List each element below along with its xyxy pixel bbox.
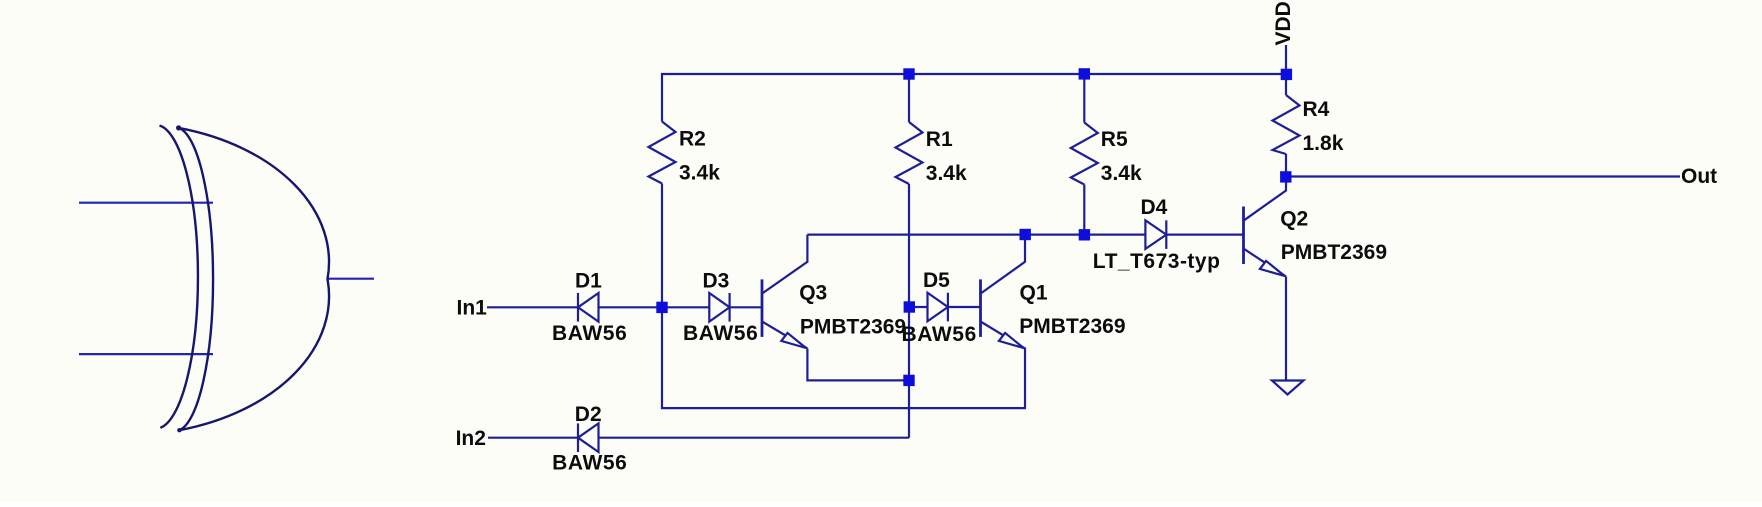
svg-text:VDD: VDD bbox=[1272, 1, 1295, 45]
wire R4 bottom lead bbox=[1285, 154, 1287, 177]
diode D1 bbox=[578, 293, 599, 322]
ground bbox=[1272, 381, 1304, 395]
node junction squares bbox=[656, 68, 1292, 386]
transistor Q2 bbox=[1244, 182, 1287, 380]
svg-text:In1: In1 bbox=[457, 296, 488, 319]
resistor R5 bbox=[1071, 123, 1098, 185]
diode D2 bbox=[578, 423, 599, 452]
svg-text:D4: D4 bbox=[1141, 196, 1168, 219]
wire top rail VDD bbox=[661, 73, 1286, 75]
wire R1 top lead bbox=[908, 74, 910, 122]
resistor R1 bbox=[896, 122, 923, 184]
transistor Q1 bbox=[981, 235, 1026, 349]
svg-text:3.4k: 3.4k bbox=[679, 162, 720, 185]
wire collector rail bbox=[807, 234, 1145, 236]
svg-text:D1: D1 bbox=[575, 270, 602, 293]
svg-text:3.4k: 3.4k bbox=[1101, 162, 1142, 185]
XOR gate input wire 2 bbox=[79, 353, 213, 355]
XOR gate top anchor dot bbox=[176, 125, 181, 130]
wire R5 top lead bbox=[1083, 74, 1085, 123]
node rail-R1 bbox=[903, 68, 914, 79]
wire D4 to Q2 base bbox=[1166, 234, 1243, 236]
wire In2 stub bbox=[488, 437, 578, 439]
node Q1 collector bbox=[1020, 229, 1031, 240]
svg-text:BAW56: BAW56 bbox=[902, 323, 977, 346]
transistor Q3 bbox=[762, 235, 909, 381]
svg-text:Q2: Q2 bbox=[1280, 208, 1308, 231]
svg-text:PMBT2369: PMBT2369 bbox=[1019, 315, 1125, 338]
wire R2 top lead bbox=[661, 73, 663, 122]
wire R4 top lead bbox=[1285, 74, 1287, 95]
diode D4 bbox=[1145, 220, 1166, 249]
wire junction to D5 bbox=[909, 306, 928, 308]
svg-text:BAW56: BAW56 bbox=[552, 452, 627, 475]
wire D5 to Q1 base bbox=[948, 306, 981, 308]
wire Out bbox=[1286, 175, 1680, 177]
node R1-D5 bbox=[904, 301, 915, 312]
diode D5 bbox=[928, 293, 948, 322]
svg-text:Out: Out bbox=[1681, 165, 1717, 188]
wire R1 bottom to In2 corner bbox=[908, 184, 910, 438]
node R5 bottom bbox=[1079, 229, 1090, 240]
wire node In1-junction down bbox=[662, 307, 1025, 408]
wire R5 bottom lead bbox=[1083, 185, 1085, 235]
svg-text:BAW56: BAW56 bbox=[552, 322, 627, 345]
resistor R2 bbox=[649, 122, 676, 184]
svg-text:D3: D3 bbox=[703, 270, 730, 293]
wire R2 bottom lead bbox=[661, 184, 663, 308]
XOR gate input wire 1 bbox=[79, 202, 213, 204]
resistor R4 bbox=[1273, 95, 1300, 154]
svg-text:LT_T673-typ: LT_T673-typ bbox=[1093, 250, 1221, 273]
svg-text:Q1: Q1 bbox=[1020, 281, 1048, 304]
wire In1 stub bbox=[487, 306, 578, 308]
XOR gate inner input arc bbox=[179, 128, 213, 430]
svg-text:PMBT2369: PMBT2369 bbox=[1281, 241, 1387, 264]
svg-text:R2: R2 bbox=[679, 128, 706, 151]
svg-text:In2: In2 bbox=[456, 427, 486, 450]
wire D3 to Q3 base bbox=[730, 306, 762, 308]
XOR gate bottom anchor dot bbox=[177, 428, 181, 432]
diode D3 bbox=[709, 293, 729, 322]
svg-text:R1: R1 bbox=[926, 128, 953, 151]
svg-text:PMBT2369: PMBT2369 bbox=[800, 315, 906, 338]
wire VDD lead bbox=[1285, 45, 1287, 74]
node R4-Out bbox=[1280, 171, 1291, 182]
svg-text:D5: D5 bbox=[923, 269, 950, 292]
wire In2 row right of D2 bbox=[599, 437, 909, 439]
svg-text:D2: D2 bbox=[575, 403, 602, 426]
svg-text:R4: R4 bbox=[1303, 98, 1330, 121]
svg-text:R5: R5 bbox=[1101, 128, 1128, 151]
XOR gate outer input arc bbox=[160, 126, 198, 428]
svg-text:1.8k: 1.8k bbox=[1303, 132, 1344, 155]
node In1-R2 bbox=[656, 302, 667, 313]
node rail-R5 bbox=[1079, 68, 1090, 79]
wire D1 to D3 bbox=[599, 306, 710, 308]
node Q3 emitter bbox=[903, 375, 914, 386]
node rail-VDD-R4 bbox=[1281, 69, 1292, 80]
svg-text:BAW56: BAW56 bbox=[683, 322, 758, 345]
XOR gate output wire bbox=[327, 278, 374, 280]
XOR gate body arc bbox=[179, 128, 329, 430]
svg-text:3.4k: 3.4k bbox=[926, 162, 967, 185]
svg-text:Q3: Q3 bbox=[799, 281, 827, 304]
